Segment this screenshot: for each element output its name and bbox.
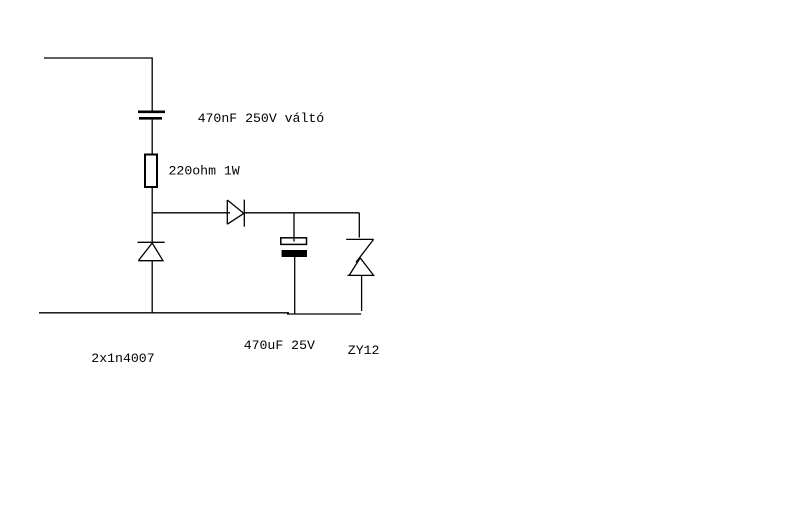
svg-text:470nF 250V váltó: 470nF 250V váltó bbox=[198, 111, 325, 126]
svg-text:ZY12: ZY12 bbox=[348, 343, 380, 358]
svg-text:470uF 25V: 470uF 25V bbox=[244, 338, 315, 353]
svg-text:2x1n4007: 2x1n4007 bbox=[91, 351, 154, 366]
svg-text:220ohm 1W: 220ohm 1W bbox=[169, 163, 240, 178]
